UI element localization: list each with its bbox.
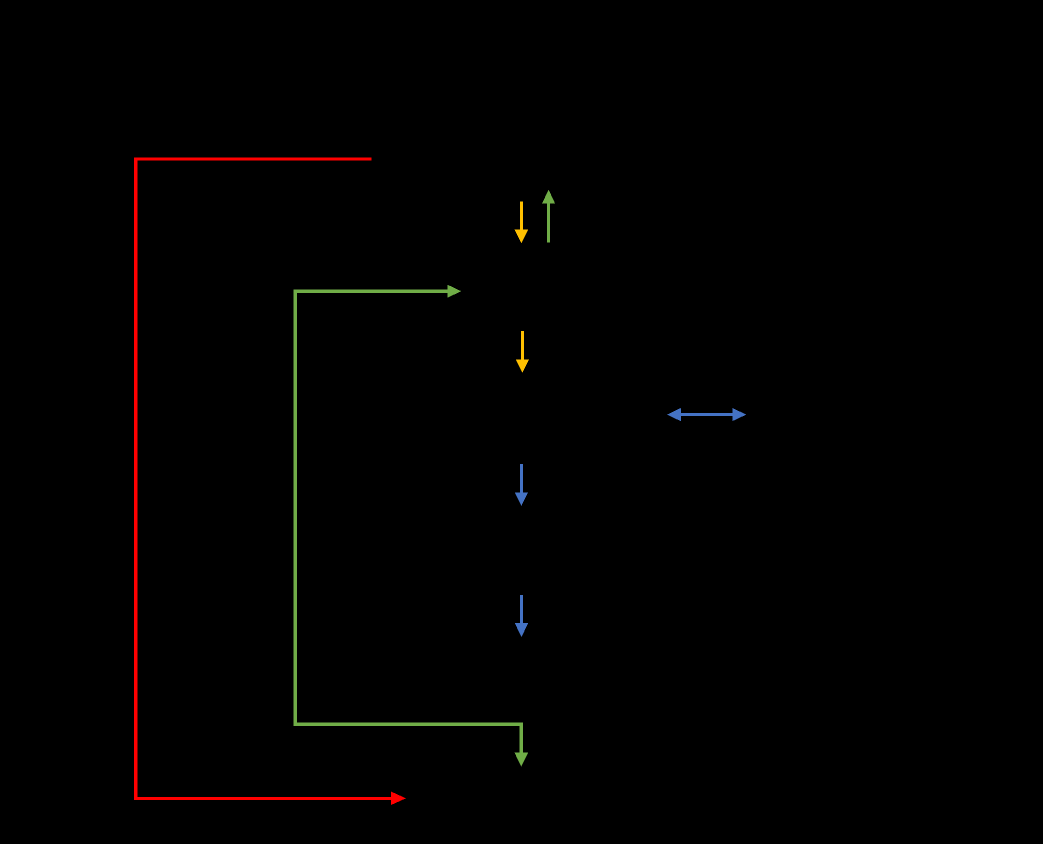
arrow: blue horizontal double-headed arrow <box>667 408 746 421</box>
arrow: blue down arrow 2 <box>515 595 528 637</box>
arrow: orange down arrow 2 <box>516 331 529 373</box>
arrow: green up arrow <box>542 190 555 243</box>
arrow: blue down arrow 1 <box>515 464 528 506</box>
arrowhead: green connector down-pointing head <box>515 753 529 767</box>
wire: red loop-back connector (top right end, left, down, bottom right run) <box>136 159 392 798</box>
arrowhead: green connector right-pointing head <box>447 285 461 298</box>
arrowhead: red connector right-pointing head <box>391 792 406 805</box>
wire: green loop connector (right arrow end, left, down, right, down arrow end) <box>295 291 521 753</box>
arrow: orange down arrow 1 <box>515 202 529 244</box>
